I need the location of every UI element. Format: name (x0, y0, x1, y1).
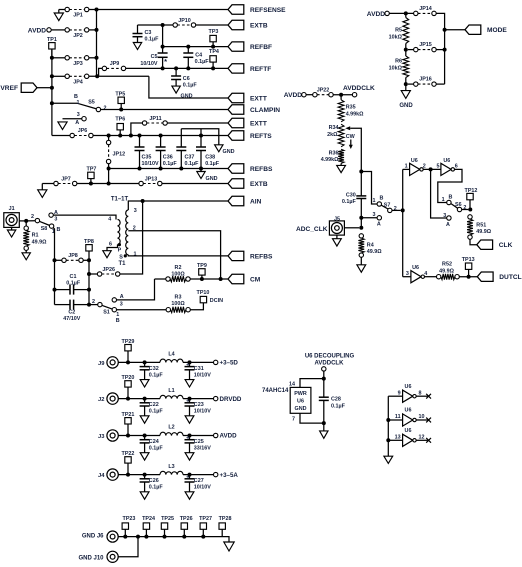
svg-text:+: + (186, 362, 190, 369)
svg-text:C30: C30 (346, 192, 356, 198)
svg-text:AVDD: AVDD (284, 92, 302, 99)
svg-text:100Ω: 100Ω (171, 272, 185, 278)
svg-text:TP24: TP24 (142, 516, 155, 522)
svg-text:R2: R2 (175, 265, 182, 271)
svg-text:R35: R35 (346, 105, 356, 111)
svg-text:14: 14 (289, 381, 295, 387)
svg-text:0.1µF: 0.1µF (145, 37, 160, 43)
svg-text:U6: U6 (412, 265, 419, 271)
svg-text:6: 6 (455, 164, 458, 170)
svg-text:C2: C2 (68, 309, 75, 315)
svg-text:J2: J2 (98, 397, 104, 403)
svg-text:T1: T1 (118, 261, 126, 267)
svg-text:2: 2 (31, 214, 34, 220)
svg-text:U6: U6 (411, 158, 418, 164)
svg-text:2kΩ: 2kΩ (327, 132, 338, 138)
svg-text:C6: C6 (183, 76, 190, 82)
svg-text:A: A (75, 120, 79, 126)
svg-text:GND: GND (295, 406, 307, 412)
svg-text:R36: R36 (329, 151, 339, 157)
svg-text:7: 7 (292, 416, 295, 422)
svg-text:S: S (119, 254, 123, 260)
svg-text:T1–1T: T1–1T (111, 197, 129, 203)
svg-text:49.9Ω: 49.9Ω (32, 239, 47, 245)
svg-text:JP10: JP10 (178, 18, 191, 24)
svg-text:C28: C28 (331, 397, 341, 403)
svg-text:AVDDCLK: AVDDCLK (315, 360, 345, 366)
svg-text:4: 4 (108, 217, 111, 223)
svg-text:JP26: JP26 (102, 267, 115, 273)
svg-text:3: 3 (373, 212, 376, 218)
svg-text:+: + (186, 474, 190, 481)
svg-text:0.1µF: 0.1µF (183, 82, 198, 88)
svg-text:S1: S1 (103, 310, 110, 316)
svg-text:49.9Ω: 49.9Ω (439, 268, 454, 274)
svg-text:1: 1 (77, 100, 80, 106)
svg-text:8: 8 (419, 390, 422, 396)
svg-text:JP3: JP3 (73, 61, 83, 67)
svg-text:47/10V: 47/10V (63, 316, 80, 322)
svg-text:EXTB: EXTB (250, 22, 268, 29)
svg-text:TP21: TP21 (122, 412, 135, 418)
svg-text:JP12: JP12 (113, 151, 126, 157)
svg-text:J3: J3 (98, 434, 105, 440)
svg-text:1: 1 (442, 197, 445, 203)
svg-text:C26: C26 (149, 478, 159, 484)
svg-text:TP6: TP6 (115, 116, 125, 122)
svg-text:TP22: TP22 (122, 451, 135, 457)
svg-text:10: 10 (419, 414, 425, 420)
svg-text:JP11: JP11 (149, 116, 161, 122)
svg-text:C35: C35 (142, 155, 152, 161)
svg-text:12: 12 (419, 434, 425, 440)
svg-text:GND J6: GND J6 (82, 533, 104, 539)
svg-text:0.1µF: 0.1µF (163, 161, 178, 167)
svg-text:33/16V: 33/16V (194, 446, 211, 452)
svg-text:GND: GND (399, 103, 413, 109)
svg-text:11: 11 (395, 414, 401, 420)
svg-text:C5: C5 (151, 54, 158, 60)
svg-text:B: B (116, 318, 120, 324)
svg-text:A: A (377, 222, 381, 228)
svg-text:TP5: TP5 (115, 91, 125, 97)
svg-text:JP6: JP6 (78, 128, 88, 134)
svg-text:4: 4 (424, 271, 427, 277)
svg-text:EXTB: EXTB (250, 181, 268, 188)
svg-text:10/10V: 10/10V (140, 61, 157, 67)
svg-text:REFBS: REFBS (250, 166, 273, 173)
svg-text:AVDD: AVDD (367, 11, 385, 18)
svg-text:AVDD: AVDD (220, 433, 238, 440)
svg-text:VREF: VREF (0, 85, 18, 92)
svg-text:10/10V: 10/10V (194, 372, 211, 378)
svg-text:PWR: PWR (294, 391, 307, 397)
svg-text:R3: R3 (175, 294, 182, 300)
svg-text:R52: R52 (442, 261, 452, 267)
svg-text:C24: C24 (149, 439, 159, 445)
svg-text:R1: R1 (32, 233, 39, 239)
svg-text:0.1µF: 0.1µF (195, 59, 210, 65)
svg-text:R6: R6 (395, 58, 402, 64)
svg-text:10/10V: 10/10V (194, 409, 211, 415)
svg-text:C23: C23 (194, 402, 204, 408)
svg-text:4.99kΩ: 4.99kΩ (346, 111, 364, 117)
svg-text:AVDD: AVDD (28, 27, 46, 34)
svg-text:49.9Ω: 49.9Ω (476, 229, 491, 235)
svg-text:EXTT: EXTT (250, 120, 267, 127)
svg-text:TP28: TP28 (219, 516, 232, 522)
svg-text:REFBF: REFBF (250, 44, 272, 51)
svg-text:+: + (186, 398, 190, 405)
svg-text:DCIN: DCIN (210, 298, 223, 304)
svg-text:1: 1 (116, 312, 119, 318)
svg-text:DUTCLK: DUTCLK (499, 274, 522, 281)
svg-text:JP14: JP14 (419, 6, 432, 12)
svg-text:TP3: TP3 (209, 29, 219, 35)
svg-text:R51: R51 (476, 222, 486, 228)
svg-text:JP15: JP15 (419, 42, 432, 48)
svg-text:AIN: AIN (250, 198, 262, 205)
svg-text:CW: CW (346, 134, 356, 140)
svg-text:CLK: CLK (499, 242, 513, 249)
svg-text:B: B (74, 94, 78, 100)
svg-text:TP26: TP26 (180, 516, 193, 522)
svg-text:U6: U6 (405, 408, 412, 414)
svg-text:3: 3 (406, 271, 409, 277)
svg-text:TP4: TP4 (209, 49, 219, 55)
svg-text:C4: C4 (195, 53, 202, 59)
svg-text:JP8: JP8 (68, 253, 78, 259)
svg-text:EXTT: EXTT (250, 95, 267, 102)
svg-text:A: A (446, 222, 450, 228)
svg-text:REFTF: REFTF (250, 66, 271, 73)
svg-text:B: B (449, 195, 453, 201)
svg-text:10kΩ: 10kΩ (389, 65, 403, 71)
svg-text:+3–5A: +3–5A (220, 472, 239, 479)
svg-text:C27: C27 (194, 478, 204, 484)
svg-text:3: 3 (77, 112, 80, 118)
svg-text:TP29: TP29 (122, 339, 135, 345)
svg-text:0.1µF: 0.1µF (149, 446, 164, 452)
svg-text:C32: C32 (149, 366, 159, 372)
svg-text:JP22: JP22 (317, 87, 330, 93)
svg-text:10/10V: 10/10V (194, 485, 211, 491)
svg-text:JP2: JP2 (73, 33, 83, 39)
svg-text:2: 2 (104, 105, 107, 111)
svg-text:TP7: TP7 (87, 166, 97, 172)
svg-text:CLAMPIN: CLAMPIN (250, 107, 280, 114)
svg-text:TP23: TP23 (123, 516, 136, 522)
svg-text:0.1µF: 0.1µF (149, 409, 164, 415)
svg-text:10kΩ: 10kΩ (389, 34, 403, 40)
svg-text:49.9Ω: 49.9Ω (367, 249, 382, 255)
svg-text:*: * (164, 57, 167, 66)
svg-text:100Ω: 100Ω (171, 301, 185, 307)
svg-text:R5: R5 (395, 27, 402, 33)
svg-text:JP7: JP7 (61, 176, 71, 182)
svg-text:P: P (118, 247, 122, 253)
svg-text:C1: C1 (70, 274, 77, 280)
svg-text:R4: R4 (367, 242, 374, 248)
svg-text:U6: U6 (297, 399, 304, 405)
svg-text:TP13: TP13 (462, 257, 475, 263)
svg-text:B: B (380, 195, 384, 201)
svg-text:+3–5D: +3–5D (220, 360, 239, 367)
svg-text:L4: L4 (168, 352, 174, 358)
svg-text:2: 2 (423, 164, 426, 170)
svg-text:S5: S5 (88, 100, 95, 106)
svg-text:C37: C37 (185, 155, 195, 161)
svg-text:CM: CM (250, 276, 261, 283)
svg-text:U6: U6 (443, 158, 450, 164)
svg-text:3: 3 (120, 301, 123, 307)
svg-text:U6 DECOUPLING: U6 DECOUPLING (305, 353, 355, 359)
svg-text:MODE: MODE (487, 27, 507, 34)
svg-text:REFSENSE: REFSENSE (250, 7, 286, 14)
svg-text:3: 3 (134, 208, 137, 214)
svg-text:GND: GND (223, 149, 235, 155)
svg-text:C22: C22 (149, 402, 159, 408)
svg-text:DRVDD: DRVDD (220, 396, 242, 403)
svg-text:0.1µF: 0.1µF (342, 199, 357, 205)
svg-text:L1: L1 (168, 388, 174, 394)
svg-text:GND: GND (181, 94, 193, 100)
svg-text:10/10V: 10/10V (142, 161, 159, 167)
svg-text:9: 9 (398, 390, 401, 396)
svg-text:2: 2 (394, 206, 397, 212)
svg-text:2: 2 (92, 299, 95, 305)
svg-text:REFTS: REFTS (250, 133, 272, 140)
svg-text:TP27: TP27 (199, 516, 212, 522)
svg-text:JP1: JP1 (73, 13, 83, 19)
svg-text:5: 5 (437, 164, 440, 170)
svg-text:R34: R34 (329, 125, 339, 131)
svg-text:ADC_CLK: ADC_CLK (296, 226, 328, 233)
svg-text:L2: L2 (168, 425, 174, 431)
svg-text:1: 1 (405, 164, 408, 170)
svg-text:AVDDCLK: AVDDCLK (343, 85, 375, 92)
svg-text:0.1µF: 0.1µF (205, 161, 220, 167)
svg-text:1: 1 (373, 198, 376, 204)
svg-text:74AHC14: 74AHC14 (262, 388, 289, 394)
svg-text:C36: C36 (163, 155, 173, 161)
svg-text:0.1µF: 0.1µF (185, 161, 200, 167)
svg-text:J4: J4 (98, 473, 105, 479)
svg-text:C3: C3 (145, 30, 152, 36)
svg-text:3: 3 (54, 217, 57, 223)
svg-text:13: 13 (395, 434, 401, 440)
svg-text:JP13: JP13 (145, 176, 158, 182)
svg-text:REFBS: REFBS (250, 253, 273, 260)
svg-text:0.1µF: 0.1µF (149, 372, 164, 378)
svg-text:B: B (56, 227, 60, 233)
svg-text:JP9: JP9 (110, 61, 120, 67)
svg-text:6: 6 (109, 241, 112, 247)
svg-text:J1: J1 (9, 206, 15, 212)
svg-text:4.99kΩ: 4.99kΩ (321, 157, 339, 163)
svg-text:GND J10: GND J10 (78, 555, 104, 561)
svg-text:JP4: JP4 (73, 79, 83, 85)
svg-text:TP20: TP20 (122, 375, 135, 381)
svg-text:0.1µF: 0.1µF (66, 280, 81, 286)
svg-text:0.1µF: 0.1µF (149, 485, 164, 491)
svg-text:TP25: TP25 (161, 516, 174, 522)
svg-text:GND: GND (206, 176, 218, 182)
svg-text:U6: U6 (405, 384, 412, 390)
svg-text:C31: C31 (194, 366, 204, 372)
svg-text:C38: C38 (205, 155, 215, 161)
svg-text:U6: U6 (405, 428, 412, 434)
svg-text:+: + (186, 435, 190, 442)
svg-text:L3: L3 (168, 464, 174, 470)
svg-text:C25: C25 (194, 439, 204, 445)
svg-text:TP10: TP10 (197, 290, 210, 296)
svg-text:J9: J9 (98, 361, 105, 367)
svg-text:0.1µF: 0.1µF (331, 404, 346, 410)
svg-text:S8: S8 (41, 226, 48, 232)
svg-text:JP16: JP16 (419, 77, 432, 83)
